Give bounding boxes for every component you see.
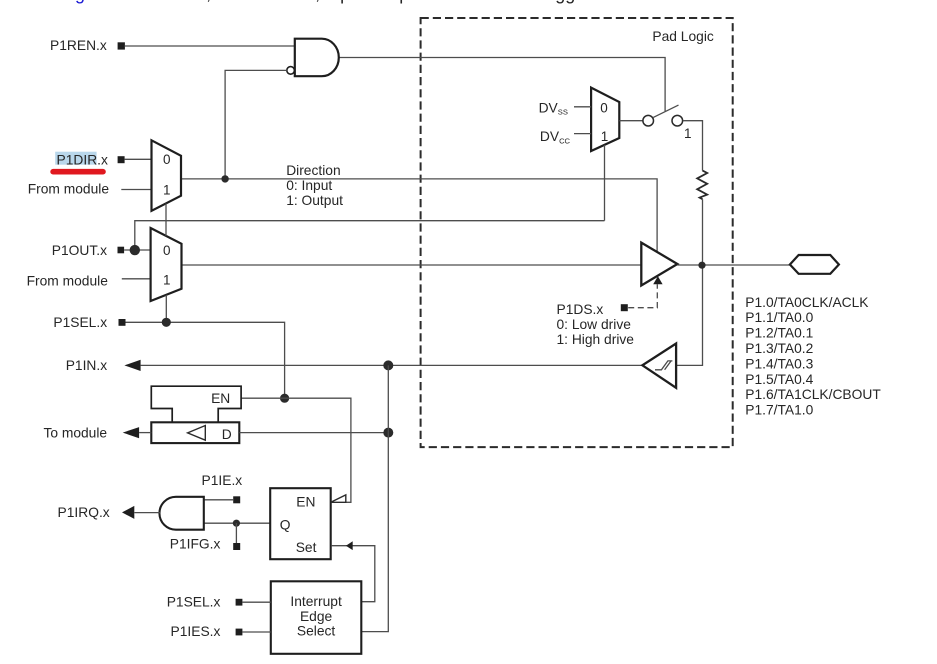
svg-text:0: 0 — [163, 243, 171, 258]
wire IFG pad stub — [235, 523, 237, 543]
svg-text:P1DS.x: P1DS.x — [557, 302, 604, 317]
and-gate G2 IRQ — [159, 497, 203, 530]
svg-text:P1.5/TA0.4: P1.5/TA0.4 — [745, 372, 813, 387]
junction P1IN node — [383, 360, 393, 370]
svg-text:Select: Select — [297, 624, 336, 639]
pad P1DIR.x — [118, 156, 125, 163]
latch EN outline — [151, 386, 241, 422]
wire switch to resistor — [683, 121, 703, 171]
junction D line node — [383, 428, 393, 438]
wire select between muxes — [165, 203, 167, 236]
svg-text:P1IRQ.x: P1IRQ.x — [58, 505, 110, 520]
svg-text:P1.7/TA1.0: P1.7/TA1.0 — [745, 403, 813, 418]
svg-text:Edge: Edge — [300, 609, 333, 624]
switch blade — [653, 105, 678, 117]
wire P1IES to box — [242, 631, 270, 633]
triangle in D latch — [188, 426, 206, 441]
svg-text:P1.0/TA0CLK/ACLK: P1.0/TA0CLK/ACLK — [745, 295, 869, 310]
junction P1OUT node — [130, 245, 140, 255]
arrow To module — [123, 427, 139, 438]
svg-text:P1.1/TA0.0: P1.1/TA0.0 — [745, 310, 813, 325]
switch contact 1 — [643, 115, 654, 126]
wire D input line — [239, 432, 388, 434]
label P1DIR.x highlight — [55, 152, 96, 165]
svg-text:P1IE.x: P1IE.x — [202, 473, 243, 488]
svg-text:EN: EN — [296, 494, 315, 509]
junction Q IFG node — [233, 520, 240, 527]
svg-text:1: High drive: 1: High drive — [557, 332, 635, 347]
svg-text:P1.4/TA0.3: P1.4/TA0.3 — [745, 356, 813, 371]
svg-text:Pad Logic: Pad Logic — [652, 29, 713, 44]
wire P1SEL2 to box — [242, 601, 270, 603]
svg-text:Set: Set — [296, 540, 317, 555]
dashed wire P1DS — [628, 284, 657, 307]
svg-text:Interrupt: Interrupt — [290, 594, 342, 609]
wire U2 select — [604, 145, 606, 221]
wire driver output to pin — [677, 264, 790, 266]
switch contact 2 — [672, 115, 683, 126]
svg-text:P1DIR.x: P1DIR.x — [57, 153, 108, 168]
wire resistor to pad line and schmitt — [676, 199, 702, 365]
red underline annotation — [50, 169, 106, 175]
pad P1DS.x — [621, 304, 628, 311]
svg-text:P1.3/TA0.2: P1.3/TA0.2 — [745, 341, 813, 356]
wire AND output to switch — [339, 58, 665, 112]
resistor R1 — [697, 171, 707, 200]
svg-text:P1.6/TA1CLK/CBOUT: P1.6/TA1CLK/CBOUT — [745, 387, 881, 402]
svg-text:From module: From module — [27, 274, 109, 289]
wire P1OUT pad to mux — [124, 249, 151, 251]
svg-text:0: 0 — [600, 100, 608, 115]
svg-text:1: 1 — [601, 129, 609, 144]
pad P1IES.x — [236, 629, 243, 636]
svg-text:DVSS: DVSS — [539, 100, 568, 116]
wire from-module to mux U3 — [121, 189, 151, 191]
pad P1REN.x — [118, 42, 125, 49]
pad P1OUT.x — [118, 247, 125, 254]
svg-text:1: 1 — [163, 182, 171, 197]
mux U3 P1DIR — [152, 140, 182, 211]
junction P1SEL select — [162, 318, 171, 327]
svg-text:P1SEL.x: P1SEL.x — [167, 594, 221, 609]
wire DVss input — [574, 106, 591, 108]
wire U4 select — [165, 295, 167, 322]
svg-text:P1IES.x: P1IES.x — [171, 624, 221, 639]
svg-text:P1IN.x: P1IN.x — [66, 358, 108, 373]
svg-text:P1OUT.x: P1OUT.x — [52, 243, 107, 258]
svg-text:0: Input: 0: Input — [286, 178, 332, 193]
svg-text:0: Low drive: 0: Low drive — [557, 317, 632, 332]
wire direction line — [181, 179, 657, 252]
wire P1DIR to mux — [125, 158, 152, 160]
triangle EN U5 — [331, 495, 346, 502]
svg-text:D: D — [222, 427, 232, 442]
svg-text:P1REN.x: P1REN.x — [50, 38, 107, 53]
wire from-module to mux U4 — [122, 278, 151, 280]
svg-text:1: 1 — [684, 126, 692, 141]
and-gate G1 — [295, 39, 339, 76]
wire U4 output to driver — [182, 264, 642, 266]
arrow Set — [346, 541, 353, 550]
mux U2 DVss/DVcc — [591, 88, 619, 151]
junction pad node — [698, 262, 705, 269]
schmitt trigger U7 — [642, 344, 676, 388]
svg-text:EN: EN — [211, 391, 230, 406]
wire P1IN vertical to edge select — [361, 365, 388, 631]
pad P1SEL.x 2 — [236, 599, 243, 606]
svg-text:0: 0 — [163, 152, 171, 167]
svg-text:From module: From module — [28, 181, 110, 196]
junction P1SEL EN — [280, 394, 289, 403]
wire direction to bubble — [225, 70, 287, 178]
wire P1SEL line — [126, 322, 285, 398]
mux U4 P1OUT — [151, 228, 182, 301]
wire P1IE to gate — [204, 499, 233, 501]
pad P1SEL.x — [119, 319, 126, 326]
hysteresis symbol — [655, 361, 672, 370]
arrow P1DS — [653, 276, 662, 284]
wire Q to gate — [204, 522, 270, 524]
svg-text:Direction: Direction — [286, 163, 340, 178]
arrow P1IN — [124, 360, 140, 371]
flip-flop U5 box — [270, 488, 331, 559]
wire Set input — [331, 546, 375, 602]
wire P1REN to AND — [125, 45, 295, 47]
wire EN latch output — [241, 398, 351, 502]
wire To module — [139, 432, 151, 434]
bubble G1 lower input — [287, 67, 295, 75]
pad logic dashed box — [421, 18, 733, 447]
svg-text:DVCC: DVCC — [540, 129, 571, 145]
svg-text:P1.2/TA0.1: P1.2/TA0.1 — [745, 326, 813, 341]
svg-text:P1IFG.x: P1IFG.x — [170, 536, 221, 551]
junction direction node — [221, 175, 228, 182]
arrow P1IRQ — [122, 506, 134, 519]
svg-text:1: Output: 1: Output — [286, 193, 343, 208]
pin pad hexagon — [790, 255, 839, 274]
wire P1IN line — [141, 364, 643, 366]
pad P1IFG.x — [233, 543, 240, 550]
interrupt edge select box — [271, 581, 362, 654]
driver buffer U6 — [641, 243, 677, 286]
svg-text:P1SEL.x: P1SEL.x — [53, 315, 107, 330]
wire P1OUT to U2 select — [135, 221, 605, 250]
svg-text:Q: Q — [280, 518, 291, 533]
svg-text:Figure 19. Port P1, P1.0 to P1: Figure 19. Port P1, P1.0 to P1.2, Input/… — [60, 0, 591, 4]
svg-text:To module: To module — [43, 426, 107, 441]
wire DVcc input — [574, 133, 591, 135]
wire U2 output — [619, 120, 642, 122]
wire P1IRQ — [134, 512, 160, 514]
pad P1IE.x — [233, 496, 240, 503]
svg-text:1: 1 — [163, 272, 171, 287]
latch D box — [151, 422, 239, 443]
